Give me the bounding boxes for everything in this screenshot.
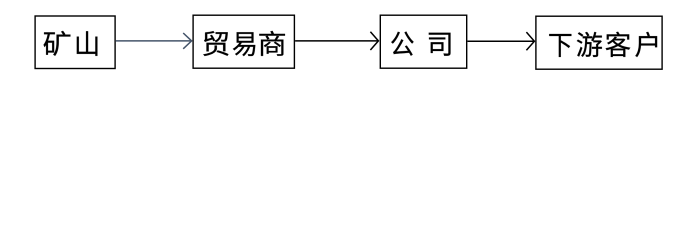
label text 贸易商 bbox=[203, 31, 285, 56]
arrow 1 (dark blue): 矿山 to 贸易商 bbox=[116, 33, 192, 49]
flow box 3: 公司 (company) bbox=[380, 15, 466, 68]
flow box 4: 下游客户 (downstream customers) bbox=[536, 16, 662, 69]
label text 矿山 bbox=[44, 31, 98, 56]
arrow 2 (black): 贸易商 to 公司 bbox=[295, 32, 378, 50]
label text 下游客户 bbox=[549, 32, 657, 57]
arrow 3 (black): 公司 to 下游客户 bbox=[468, 32, 535, 50]
flow box 2: 贸易商 (trader) bbox=[193, 15, 294, 68]
label text 公司 bbox=[391, 32, 450, 56]
flow box 1: 矿山 (mine) bbox=[35, 16, 115, 69]
